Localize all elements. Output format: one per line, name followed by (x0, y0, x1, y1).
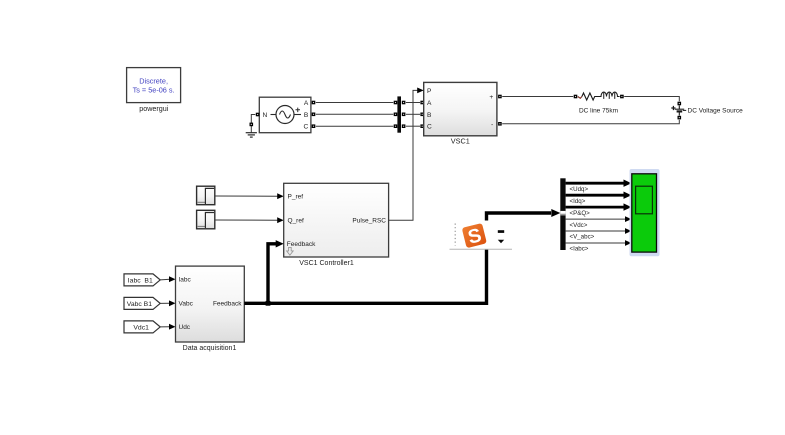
VSC1 A port square (420, 101, 424, 105)
bar left A port square (394, 101, 398, 105)
branch junction (266, 301, 271, 306)
wire C source to bar (316, 125, 394, 127)
wire C bar to VSC1 (406, 125, 420, 127)
RL branch resistor and inductor (578, 92, 620, 100)
RL branch left port square (574, 95, 578, 99)
svg-text:A: A (427, 100, 432, 107)
wire Vdc1 tag to block (160, 326, 170, 328)
bar right C port square (402, 124, 406, 128)
svg-text:+: + (489, 94, 493, 101)
arrowhead into Q_ref (277, 217, 284, 223)
VSC1 Controller1 block (284, 183, 389, 257)
svg-text:C: C (427, 124, 432, 131)
scope selection halo (630, 169, 660, 256)
source N port square (256, 113, 260, 117)
bar right A port square (402, 101, 406, 105)
arrowhead into P_ref (277, 193, 284, 199)
VSC1 block (424, 82, 497, 135)
From tag Iabc B1 (124, 274, 160, 286)
thick arrowhead into bus selector (551, 209, 560, 217)
svg-text:<Vdc>: <Vdc> (570, 222, 588, 229)
svg-text:DC Voltage Source: DC Voltage Source (688, 107, 744, 114)
svg-text:Iabc: Iabc (179, 277, 192, 284)
bar right B port square (402, 113, 406, 117)
scope screen (636, 186, 653, 214)
bus output wire P&Q (566, 206, 626, 209)
DC source bottom port square (678, 116, 682, 120)
source B port square (312, 113, 316, 117)
wire Pulse_RSC to VSC1 P (389, 90, 418, 220)
svg-text:VSC1 Controller1: VSC1 Controller1 (299, 260, 354, 267)
bus output wire Udq (566, 182, 626, 185)
svg-text:<Iabc>: <Iabc> (570, 246, 589, 253)
wire A source to bar (316, 102, 394, 104)
arrowhead V_abc (625, 228, 632, 234)
powergui block (127, 68, 181, 103)
svg-text:<Udq>: <Udq> (570, 186, 589, 193)
bus output wire V_abc (566, 230, 627, 232)
wire B bar to VSC1 (406, 113, 420, 115)
svg-text:P: P (427, 88, 432, 95)
step block P_ref (197, 186, 215, 205)
bus output wire Vdc (566, 218, 627, 220)
svg-text:B: B (304, 112, 309, 119)
three-phase bus bar (397, 96, 401, 132)
svg-text:Ts = 5e-06 s.: Ts = 5e-06 s. (133, 86, 175, 95)
annotation box (448, 221, 512, 250)
svg-text:Data acquisition1: Data acquisition1 (183, 345, 237, 352)
arrowhead Vdc1 (169, 324, 176, 330)
svg-text:Q_ref: Q_ref (288, 218, 304, 225)
svg-text:powergui: powergui (139, 104, 169, 113)
dotted guide line (454, 224, 456, 246)
wire DC source bottom to VSC1 minus (502, 120, 679, 124)
wire A bar to VSC1 (406, 102, 420, 104)
bus output wire Iabc (566, 242, 627, 244)
VSC1 minus port square (498, 122, 502, 126)
wire VSC1 plus to RL branch (502, 96, 573, 98)
svg-text:<Idq>: <Idq> (570, 198, 586, 205)
arrowhead Iabc (169, 276, 176, 282)
ground port square (250, 123, 254, 127)
svg-text:Vabc: Vabc (179, 301, 194, 308)
svg-text:Feedback: Feedback (213, 301, 242, 308)
wire step1 to P_ref (215, 195, 278, 197)
scope block (632, 174, 657, 252)
step block Q_ref (197, 210, 215, 229)
bar left C port square (394, 124, 398, 128)
DC source top port square (678, 102, 682, 106)
arrowhead Idq (624, 192, 632, 199)
svg-text:P_ref: P_ref (288, 194, 304, 201)
wire RL to DC source top (624, 97, 679, 102)
minus mark (498, 230, 504, 233)
svg-text:<P&Q>: <P&Q> (570, 210, 591, 217)
bus selector bar (560, 178, 565, 250)
svg-text:Vabc B1: Vabc B1 (127, 301, 152, 308)
svg-text:Udc: Udc (179, 324, 191, 331)
svg-text:N: N (263, 112, 268, 119)
Simulink S logo (462, 223, 488, 250)
arrowhead into P (417, 88, 424, 94)
thick branch wire to Feedback (268, 244, 276, 303)
bus output wire Idq (566, 194, 626, 197)
arrowhead Vdc (625, 216, 632, 222)
svg-text:Vdc1: Vdc1 (133, 324, 149, 331)
thick feedback trunk wire (244, 213, 551, 303)
bus selector input notch (560, 211, 565, 215)
DC voltage source symbol (671, 106, 686, 116)
svg-text:-: - (491, 121, 493, 128)
arrowhead Iabc (625, 240, 632, 246)
arrowhead Vabc (169, 300, 176, 306)
thick arrowhead into Feedback (276, 240, 284, 247)
wire Vabc tag to block (160, 302, 170, 304)
svg-text:C: C (304, 124, 309, 131)
svg-text:Discrete,: Discrete, (139, 76, 168, 85)
svg-text:A: A (304, 100, 309, 107)
wire step2 to Q_ref (215, 219, 278, 221)
source C port square (312, 124, 316, 128)
svg-text:<V_abc>: <V_abc> (570, 234, 595, 241)
source sine symbol (271, 106, 302, 124)
wire B source to bar (316, 113, 394, 115)
From tag Vabc B1 (124, 297, 160, 309)
bar left B port square (394, 113, 398, 117)
svg-text:B: B (427, 112, 432, 119)
linked-block badge arrow (287, 247, 294, 255)
svg-text:Iabc B1: Iabc B1 (128, 277, 153, 284)
svg-text:Pulse_RSC: Pulse_RSC (352, 218, 386, 225)
arrowhead Udq (624, 180, 632, 187)
From tag Vdc1 (124, 321, 160, 333)
wire Iabc tag to block (160, 278, 170, 281)
Data acquisition1 block (176, 266, 245, 342)
three-phase source block (259, 97, 311, 133)
RL branch right port square (620, 95, 624, 99)
source A port square (312, 101, 316, 105)
wire N to ground (251, 115, 255, 133)
svg-text:VSC1: VSC1 (451, 137, 470, 146)
VSC1 plus port square (498, 95, 502, 99)
VSC1 B port square (420, 113, 424, 117)
ground symbol (246, 133, 257, 137)
triangle mark (498, 240, 504, 244)
arrowhead P&Q (624, 203, 632, 210)
VSC1 C port square (420, 124, 424, 128)
svg-text:DC line 75km: DC line 75km (579, 107, 618, 114)
